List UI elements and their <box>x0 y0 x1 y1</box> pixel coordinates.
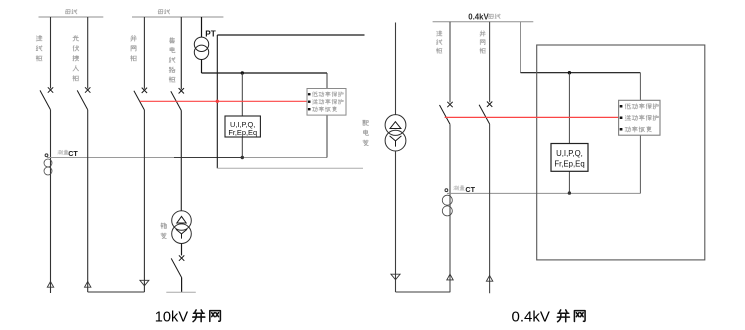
PT winding 2 <box>194 45 208 59</box>
red trip wire <box>140 100 307 102</box>
wire: PV bottom link <box>88 291 145 293</box>
breaker QF1 X mark <box>48 87 53 92</box>
bullet 低功率保护 (0.4kV) <box>620 105 623 108</box>
breaker QF5 X mark <box>179 255 184 260</box>
PT winding 1 <box>194 37 208 51</box>
transformer 配电变 winding 1 <box>385 115 406 136</box>
transformer 箱变 winding 2 <box>172 224 192 244</box>
label 进线柜 <box>36 36 42 61</box>
wire: grid-tie feeder lower <box>489 124 491 293</box>
protection cabinet frame (0.4kV) <box>537 45 705 260</box>
wire: feeder 1 upper (进线柜) <box>50 17 52 89</box>
measurement CT coils (0.4kV) <box>442 195 452 205</box>
breaker QF2 X mark <box>85 87 90 92</box>
label 并网柜 (0.4kV) <box>480 31 485 53</box>
label 测量CT (0.4kV) <box>454 186 465 190</box>
node: junction dot on PT secondary <box>241 71 244 74</box>
wire: feeder 1 lower <box>50 110 52 293</box>
bullet 功率恢复 (0.4kV) <box>620 128 623 131</box>
wire: loop right edge <box>639 73 641 194</box>
bullet 功率恢复 <box>308 108 311 110</box>
wire: busbar drop to protection loop <box>520 22 522 73</box>
text 功率恢复 (0.4kV) <box>625 127 651 132</box>
node: red junction dot <box>216 100 219 103</box>
wire: feeder 3 upper (并网柜) <box>143 17 145 89</box>
wire: measurement drop line <box>241 73 243 158</box>
breaker QF4 X mark <box>179 88 184 93</box>
metering box U,I,P,Q (10kV) <box>225 116 260 137</box>
wire: CT measuring line (dark part) <box>47 157 174 159</box>
protection frame bottom edge <box>217 167 363 169</box>
wire: feeder 4 upper (集电线路柜) <box>180 17 182 89</box>
down arrow on feeder 3 <box>140 280 149 286</box>
wire: feeder 4 to transformer <box>180 111 182 211</box>
transformer 配电变 wye symbol <box>390 136 402 147</box>
bullet 低功率保护 <box>308 93 311 95</box>
svg-text:U,I,P,Q,: U,I,P,Q, <box>556 149 583 158</box>
arrow on feeder 2 <box>85 282 91 288</box>
protection relay box (0.4kV) <box>619 100 660 135</box>
label 母线 (busbar 1) <box>65 9 77 14</box>
label 光伏接入柜 <box>73 36 79 81</box>
text 功率恢复 <box>312 107 336 112</box>
svg-text:Fr,Ep,Eq: Fr,Ep,Eq <box>228 128 257 137</box>
label 测量CT <box>58 150 68 154</box>
protection relay box (10kV) <box>307 89 346 116</box>
node: junction dot at CT line (0.4kV) <box>568 191 571 194</box>
bullet 逆功率保护 <box>308 101 311 103</box>
arrow on grid-tie feeder <box>486 276 492 282</box>
svg-text:10kV: 10kV <box>155 309 189 325</box>
wire: PT feed from busbar <box>201 17 203 37</box>
CT tap node circle (0.4kV) <box>445 189 448 192</box>
svg-text:0.4kV: 0.4kV <box>512 309 550 326</box>
label 并网柜 <box>131 36 137 61</box>
transformer 配电变 winding 2 <box>385 130 406 151</box>
wire: CT measuring line (gray part) <box>242 157 327 159</box>
svg-text:0.4kV: 0.4kV <box>468 12 489 21</box>
breaker QF7 blade <box>479 105 490 124</box>
measurement CT coils <box>44 159 52 167</box>
node: junction dot at CT line <box>241 156 244 159</box>
metering box U,I,P,Q (0.4kV) <box>551 144 588 172</box>
wire: feeder 2 lower <box>87 110 89 292</box>
wire: 配电变 MV feed <box>395 23 397 115</box>
arrow on feeder 1 <box>47 282 53 288</box>
label 箱变 <box>161 223 167 239</box>
label 进线柜 (0.4kV) <box>436 31 441 53</box>
wire: bottom link 配电变 to incoming <box>396 291 451 293</box>
breaker QF5 blade <box>171 258 181 277</box>
svg-text:CT: CT <box>465 185 475 194</box>
wire: breaker to LV stub <box>181 278 183 293</box>
wire: transformer to breaker <box>181 244 183 256</box>
wire: LV incoming lower <box>449 124 451 292</box>
wire: measurement drop line (0.4kV) <box>568 73 570 193</box>
label 配电变 <box>363 120 369 145</box>
wire: grid-tie feeder upper (并网柜) <box>489 22 491 102</box>
bullet 逆功率保护 (0.4kV) <box>620 117 623 120</box>
wire: feeder 2 upper (光伏接入柜) <box>87 17 89 89</box>
text 逆功率保护 (0.4kV) <box>625 115 658 120</box>
busbar section 1 (10kV 母线 left) <box>39 16 104 18</box>
CT tap node circle <box>45 154 48 157</box>
svg-text:Fr,Ep,Eq: Fr,Ep,Eq <box>554 159 584 168</box>
red trip wire (0.4kV) <box>445 116 619 118</box>
wire: PT to secondary bus <box>201 60 203 74</box>
breaker QF1 blade <box>40 90 51 109</box>
protection frame top edge <box>217 34 364 36</box>
wire: CT measuring line (0.4kV) <box>447 192 640 194</box>
label 母线 (busbar 2) <box>158 9 170 14</box>
down arrow on 配电变 line <box>391 274 400 280</box>
wire: inner loop right edge <box>326 73 328 158</box>
wire: 配电变 LV side down <box>395 151 397 292</box>
svg-text:PT: PT <box>205 30 215 39</box>
wire: PT secondary horizontal <box>202 72 328 74</box>
breaker QF3 blade <box>134 91 145 110</box>
wire: feeder 3 lower <box>143 110 145 292</box>
wire: LV incoming upper <box>449 22 451 103</box>
transformer 箱变 winding 1 <box>172 211 192 231</box>
breaker QF6 X mark <box>447 102 452 107</box>
breaker QF3 X mark <box>142 88 147 93</box>
transformer 配电变 delta symbol <box>390 122 401 129</box>
arrow on LV incoming <box>447 274 453 280</box>
svg-text:CT: CT <box>68 149 78 158</box>
text 逆功率保护 <box>312 99 343 104</box>
breaker QF6 blade <box>440 105 451 124</box>
wire: protection loop top (black) <box>521 72 641 74</box>
protection frame left edge <box>216 35 218 168</box>
busbar section 2 (10kV 母线 right) <box>132 16 223 18</box>
text 低功率保护 (0.4kV) <box>625 104 658 109</box>
breaker QF4 blade <box>171 91 182 110</box>
breaker QF7 X mark <box>487 102 492 107</box>
label 集电线路柜 <box>169 38 175 83</box>
busbar 0.4kV <box>433 21 534 23</box>
text 低功率保护 <box>313 92 344 97</box>
LV terminal stub <box>166 291 196 293</box>
node: junction dot on loop top <box>568 71 571 74</box>
breaker QF2 blade <box>77 90 88 109</box>
transformer 箱变 wye symbol <box>176 229 187 238</box>
transformer 箱变 delta symbol <box>177 216 186 223</box>
